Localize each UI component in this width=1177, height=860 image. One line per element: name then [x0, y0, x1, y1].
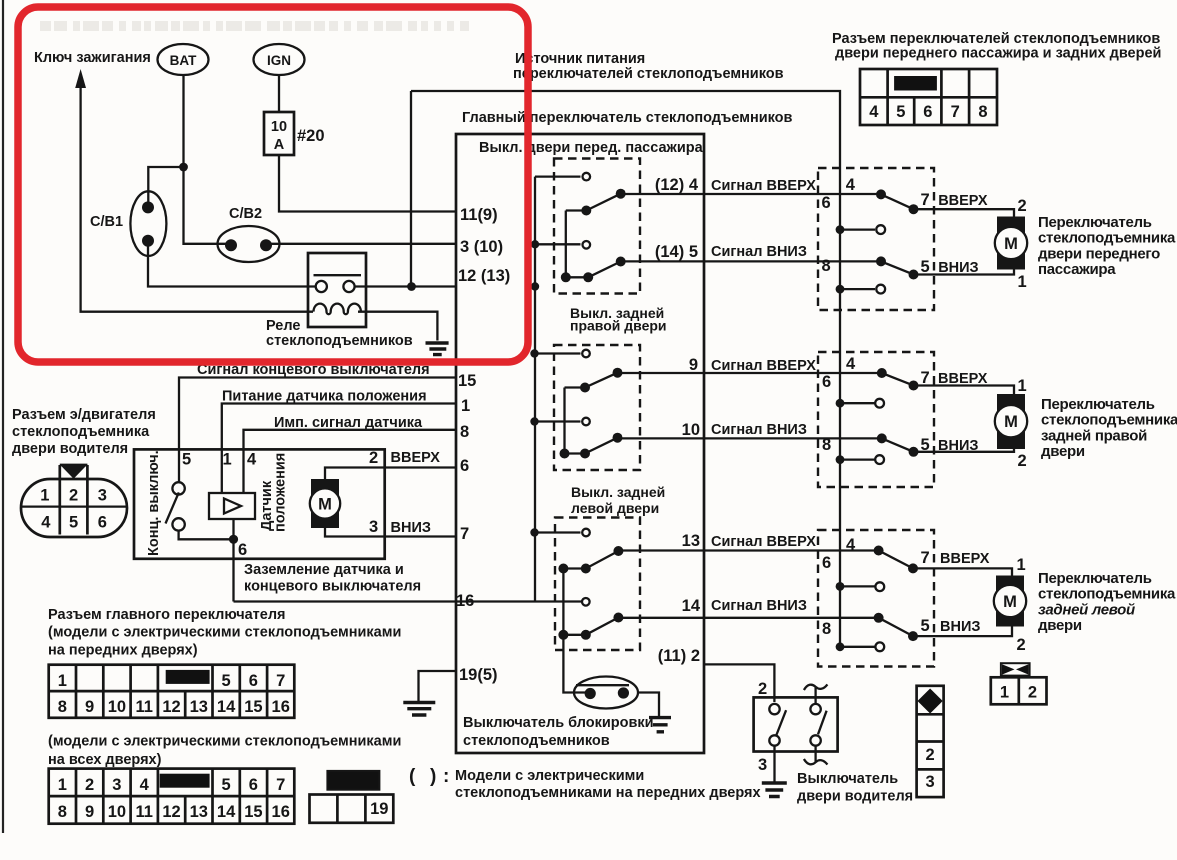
svg-text:1: 1 [40, 487, 49, 505]
svg-text:положения: положения [273, 453, 289, 532]
position sensor box [209, 493, 255, 519]
svg-text:C/B2: C/B2 [229, 206, 262, 222]
key fill [894, 76, 937, 91]
svg-text:3: 3 [112, 776, 121, 794]
svg-text:7: 7 [951, 103, 960, 121]
connector 19: key fill [327, 771, 379, 790]
svg-text:(: ( [409, 766, 416, 787]
svg-text:7: 7 [921, 549, 930, 567]
svg-text:4: 4 [140, 776, 150, 794]
svg-text:8: 8 [822, 436, 831, 454]
wire: lock out pin (11)2 to driver door switch [704, 664, 774, 702]
svg-text:11: 11 [135, 803, 152, 821]
wire: limit switch signal (pin 15) [179, 378, 456, 483]
connector 19 cells [310, 795, 394, 823]
switch S2 arm [566, 262, 621, 278]
feed bus 2 segment box1 [565, 211, 567, 278]
svg-text:M: M [1004, 235, 1018, 253]
svg-text:13: 13 [190, 803, 208, 821]
svg-text:M: M [1004, 413, 1018, 431]
relay contact circles [316, 281, 327, 292]
node IGN [254, 44, 305, 75]
wire: BAT down to C/B2 [148, 75, 228, 244]
dashed box: rear right door switch [818, 352, 934, 487]
relay coil [314, 304, 361, 315]
svg-text:стеклоподъемника: стеклоподъемника [12, 424, 150, 440]
svg-text:7: 7 [276, 672, 285, 690]
svg-text:3: 3 [369, 518, 378, 536]
svg-text:8: 8 [822, 620, 831, 638]
svg-text:4: 4 [41, 514, 51, 532]
svg-text:Питание датчика положения: Питание датчика положения [222, 389, 427, 405]
svg-text:1: 1 [461, 397, 470, 415]
wire: sensor pulse signal (pin 8) [244, 430, 457, 493]
connector: switch connector grid [860, 69, 997, 125]
wire: pin 19(5) to ground [419, 671, 457, 701]
driver motor [311, 479, 339, 528]
svg-text:19: 19 [370, 800, 388, 818]
limit switch arm [166, 492, 179, 523]
svg-text:Сигнал ВВЕРХ: Сигнал ВВЕРХ [711, 358, 816, 374]
dashed box: rear left switch [555, 518, 640, 651]
svg-text:A: A [274, 137, 285, 153]
svg-text:#20: #20 [297, 127, 325, 145]
svg-text:8: 8 [58, 698, 67, 716]
driver door switch left arm [776, 710, 786, 735]
ground: lock switch [649, 718, 671, 732]
svg-text:(11) 2: (11) 2 [658, 647, 700, 665]
connector numbers [869, 103, 987, 121]
svg-text:задней левой: задней левой [1038, 601, 1135, 618]
svg-text:задней правой: задней правой [1041, 427, 1147, 444]
svg-text:2: 2 [1028, 684, 1037, 702]
R2 switch DOWN arm [882, 438, 1014, 451]
svg-text:): ) [430, 766, 436, 787]
driver door switch right contacts [810, 704, 820, 714]
svg-text:двери водителя: двери водителя [797, 789, 913, 805]
R3 switch DOWN arm [879, 618, 1012, 636]
svg-text:4: 4 [846, 355, 856, 373]
R1 rest contact 1 [840, 228, 875, 230]
svg-text:(модели с электрическими стекл: (модели с электрическими стеклоподъемник… [48, 734, 401, 750]
driver door switch right arm [818, 711, 827, 735]
svg-text:1: 1 [1018, 273, 1027, 291]
svg-text:стеклоподъемника: стеклоподъемника [1041, 412, 1177, 429]
svg-text:Выключатель: Выключатель [797, 771, 898, 787]
svg-text:M: M [1003, 593, 1017, 611]
svg-text:12: 12 [162, 698, 180, 716]
wire: UP to pin 6 [385, 466, 456, 468]
svg-text:на всех дверях): на всех дверях) [48, 752, 162, 768]
svg-text:Сигнал ВНИЗ: Сигнал ВНИЗ [711, 422, 807, 438]
connector row divider [21, 505, 127, 507]
svg-text:5: 5 [182, 451, 191, 469]
motor: rear left [996, 576, 1024, 627]
ghost bleed-through text [40, 21, 469, 31]
svg-text:8: 8 [822, 257, 831, 275]
red highlight box [18, 7, 528, 362]
svg-text:7: 7 [921, 191, 930, 209]
svg-text:15: 15 [244, 803, 262, 821]
svg-text:Разъем главного переключателя: Разъем главного переключателя [48, 607, 286, 623]
svg-text:6: 6 [923, 103, 932, 121]
junction: source power on pin 12(13) wire [407, 282, 416, 291]
wire: signal DOWN front passenger [621, 260, 881, 262]
svg-text:7: 7 [276, 776, 285, 794]
svg-text:Переключатель: Переключатель [1041, 396, 1155, 413]
svg-text:стеклоподъемников: стеклоподъемников [266, 333, 413, 349]
feed bus 2 segment box2 [563, 388, 565, 454]
svg-text:12 (13): 12 (13) [458, 267, 510, 285]
svg-text:5: 5 [921, 258, 930, 276]
wire: source power top [411, 91, 840, 647]
svg-text:10: 10 [108, 803, 126, 821]
lock switch ellipse [574, 677, 638, 709]
svg-text:4: 4 [846, 176, 856, 194]
svg-text:9: 9 [689, 356, 698, 374]
svg-text:Выкл. задней: Выкл. задней [571, 484, 665, 500]
svg-text:двери: двери [1038, 617, 1082, 634]
node BAT [158, 44, 209, 75]
svg-text:1: 1 [1017, 556, 1026, 574]
svg-text:Имп. сигнал датчика: Имп. сигнал датчика [274, 415, 423, 431]
svg-text:16: 16 [272, 803, 290, 821]
svg-text:Разъем э/двигателя: Разъем э/двигателя [12, 407, 156, 423]
switch S3 arm [565, 373, 618, 388]
svg-text:8: 8 [460, 423, 469, 441]
bowtie key [1001, 663, 1030, 675]
svg-text:5: 5 [896, 103, 905, 121]
switch S4 rest contact [535, 420, 581, 422]
svg-text:8: 8 [58, 803, 67, 821]
svg-text:Выключатель блокировки: Выключатель блокировки [463, 715, 654, 731]
svg-text:на передних дверях): на передних дверях) [48, 643, 198, 659]
svg-text:Выкл. двери перед. пассажира: Выкл. двери перед. пассажира [479, 140, 704, 156]
svg-text:Сигнал ВВЕРХ: Сигнал ВВЕРХ [711, 178, 816, 194]
wire: signal UP front passenger [621, 193, 881, 195]
svg-text:5: 5 [222, 776, 231, 794]
svg-text:Источник питания: Источник питания [515, 51, 645, 67]
junction dots bus1 [531, 240, 539, 248]
svg-text:2: 2 [926, 746, 935, 764]
junction: sensor ground [229, 535, 238, 544]
svg-text:Модели с электрическими: Модели с электрическими [455, 768, 644, 784]
driver door switch box [754, 697, 838, 751]
connector: diamond column [917, 686, 944, 797]
connector key triangle [60, 465, 88, 479]
switch S6 rest contact [582, 598, 590, 606]
svg-text:1: 1 [1018, 377, 1027, 395]
page edge border [2, 0, 4, 833]
svg-text:3: 3 [758, 756, 767, 774]
relay contact bar [314, 274, 362, 276]
svg-text:4: 4 [869, 103, 879, 121]
feed bus 1 inside main box [534, 177, 536, 602]
svg-text:Переключатель: Переключатель [1038, 570, 1152, 587]
wire: motor down [325, 528, 385, 537]
driver door motor unit box [134, 449, 385, 558]
relay window-lift: box [308, 253, 366, 327]
svg-text:Сигнал ВВЕРХ: Сигнал ВВЕРХ [711, 534, 816, 550]
driver door switch left contacts [769, 704, 779, 714]
svg-text:ВВЕРХ: ВВЕРХ [391, 450, 441, 466]
svg-text:2: 2 [758, 680, 767, 698]
svg-text:IGN: IGN [267, 53, 291, 68]
svg-text:13: 13 [682, 532, 700, 550]
svg-text::: : [443, 766, 449, 787]
svg-text:стеклоподъемниками на передних: стеклоподъемниками на передних дверях [455, 785, 761, 801]
fuse 10A #20 [278, 75, 280, 112]
junction: BAT branch [179, 163, 188, 172]
svg-text:двери водителя: двери водителя [12, 441, 128, 457]
svg-text:3 (10): 3 (10) [460, 238, 503, 256]
svg-text:7: 7 [921, 369, 930, 387]
svg-text:3: 3 [926, 773, 935, 791]
svg-text:6: 6 [822, 373, 831, 391]
svg-text:12: 12 [162, 803, 180, 821]
svg-text:10: 10 [271, 119, 287, 135]
svg-text:11(9): 11(9) [460, 206, 498, 224]
svg-text:5: 5 [69, 514, 78, 532]
svg-text:2: 2 [1018, 452, 1027, 470]
wire: C/B2 to main switch pin 3(10) [269, 243, 456, 245]
svg-text:14: 14 [217, 803, 236, 821]
svg-text:1: 1 [58, 672, 67, 690]
R3 rest contact 2 [840, 646, 875, 648]
switch S5 arm [563, 551, 618, 569]
svg-text:15: 15 [244, 698, 262, 716]
dashed box: rear right switch [554, 345, 640, 470]
switch S1 rest contact [535, 175, 581, 177]
svg-text:1: 1 [1000, 684, 1009, 702]
switch S5 rest contact [535, 531, 581, 533]
svg-text:13: 13 [190, 698, 208, 716]
connector center channel [60, 465, 88, 535]
svg-text:концевого выключателя: концевого выключателя [244, 579, 421, 595]
svg-text:M: M [318, 496, 332, 514]
motor: rear right [997, 394, 1025, 449]
svg-text:левой двери: левой двери [571, 500, 659, 516]
connector grid 2 (all doors models) [49, 769, 295, 824]
main window switch box [456, 134, 704, 753]
connector: driver door motor oval [21, 479, 127, 537]
svg-text:14: 14 [682, 597, 701, 615]
R1 rest contact 2 [840, 288, 875, 290]
dashed box: rear left door switch [818, 530, 934, 667]
wire: driver door switch to ground [773, 746, 775, 782]
svg-text:11: 11 [135, 698, 152, 716]
svg-text:двери: двери [1041, 443, 1085, 460]
wire: signal UP rear right [618, 372, 882, 374]
switch S3 rest contact [535, 352, 581, 354]
wire: signal UP rear left [618, 549, 878, 551]
svg-text:4: 4 [846, 536, 856, 554]
wire: limit switch bottom to junction [179, 531, 234, 540]
switch S2 rest contact [535, 243, 581, 245]
svg-text:Сигнал ВНИЗ: Сигнал ВНИЗ [711, 244, 807, 260]
R1 switch UP arm [881, 194, 1014, 217]
svg-text:стеклоподъемника: стеклоподъемника [1038, 230, 1176, 247]
ground: driver door switch [762, 783, 787, 797]
svg-text:9: 9 [85, 698, 94, 716]
wire: relay coil to ground [358, 312, 437, 341]
svg-text:1: 1 [223, 451, 232, 469]
wire: C/B1 bottom to relay contact and pin 12(13) [148, 243, 456, 287]
svg-text:2: 2 [85, 776, 94, 794]
svg-text:(12) 4: (12) 4 [655, 176, 699, 194]
wire: sensor bottom to pin 6 junction [232, 519, 234, 602]
svg-text:5: 5 [222, 672, 231, 690]
svg-text:Реле: Реле [266, 318, 300, 334]
svg-text:10: 10 [682, 421, 700, 439]
wire: sensor ground (pin 16) through box to S6 [234, 600, 582, 602]
svg-text:стеклоподъемников: стеклоподъемников [463, 733, 610, 749]
svg-text:правой двери: правой двери [570, 318, 667, 334]
svg-text:14: 14 [217, 698, 236, 716]
svg-text:двери переднего: двери переднего [1038, 245, 1160, 262]
wire: lock switch to ground [638, 693, 659, 717]
svg-text:2: 2 [1018, 197, 1027, 215]
svg-text:6: 6 [460, 457, 469, 475]
svg-text:ВНИЗ: ВНИЗ [940, 619, 980, 635]
svg-text:пассажира: пассажира [1038, 261, 1116, 278]
svg-text:6: 6 [822, 194, 831, 212]
limit switch contacts [172, 482, 184, 494]
svg-text:4: 4 [247, 451, 257, 469]
svg-text:15: 15 [458, 372, 476, 390]
wire: signal DOWN rear right [618, 437, 882, 439]
svg-text:6: 6 [822, 554, 831, 572]
svg-text:7: 7 [460, 525, 469, 543]
connector: 1-2 cells [991, 677, 1047, 704]
junction dots on right feed bus [836, 225, 845, 234]
R3 switch UP arm [879, 551, 1012, 577]
wire: ignition key arrow to relay coil [81, 86, 313, 312]
svg-text:2: 2 [69, 487, 78, 505]
wire: DOWN to pin 7 [385, 535, 456, 537]
connector grid 1 (front doors models) [49, 665, 295, 718]
ground: relay [426, 343, 449, 355]
svg-text:Ключ зажигания: Ключ зажигания [34, 50, 151, 66]
svg-text:C/B1: C/B1 [90, 214, 123, 230]
svg-text:Сигнал ВНИЗ: Сигнал ВНИЗ [711, 598, 807, 614]
wire: fuse to main switch pin 11(9) [279, 155, 456, 212]
svg-text:2: 2 [369, 449, 378, 467]
svg-text:2: 2 [1017, 636, 1026, 654]
svg-text:10: 10 [108, 698, 126, 716]
grid1 numbers [58, 672, 290, 716]
svg-text:9: 9 [85, 803, 94, 821]
grid2 numbers [58, 776, 290, 821]
svg-text:6: 6 [238, 541, 247, 559]
R3 rest contact 1 [840, 585, 875, 587]
R2 switch UP arm [882, 373, 1014, 395]
grid2 key fill [160, 774, 210, 788]
dashed box: front passenger switch [554, 159, 640, 294]
svg-text:6: 6 [98, 514, 107, 532]
svg-text:3: 3 [98, 487, 107, 505]
wire: signal DOWN rear left [618, 617, 878, 619]
svg-text:BAT: BAT [170, 53, 197, 68]
svg-text:(модели с электрическими стекл: (модели с электрическими стеклоподъемник… [48, 625, 401, 641]
plunger curl bottom [804, 746, 828, 765]
switch S4 arm [565, 438, 618, 454]
ground: main switch [403, 703, 435, 716]
R2 rest contact 2 [840, 458, 875, 460]
R2 rest contact 1 [840, 402, 875, 404]
feed bus 2 segment box3 down to lock switch [563, 569, 586, 693]
switch S1 arm [566, 194, 621, 211]
plunger curl top [804, 684, 828, 704]
svg-text:ВВЕРХ: ВВЕРХ [938, 193, 988, 209]
wire: motor up [325, 468, 385, 480]
svg-text:6: 6 [249, 776, 258, 794]
svg-text:6: 6 [249, 672, 258, 690]
svg-text:8: 8 [978, 103, 987, 121]
svg-text:двери переднего пассажира и за: двери переднего пассажира и задних двере… [835, 46, 1161, 62]
svg-text:5: 5 [921, 617, 930, 635]
dashed box: front passenger door switch [818, 168, 934, 310]
svg-text:(14) 5: (14) 5 [655, 243, 698, 261]
svg-text:Переключатель: Переключатель [1038, 214, 1152, 231]
svg-text:стеклоподъемника: стеклоподъемника [1038, 586, 1176, 603]
wire: position sensor supply (pin 1) [222, 404, 456, 494]
switch S6 arm [563, 618, 618, 635]
grid1 key fill [166, 670, 210, 684]
svg-text:16: 16 [272, 698, 290, 716]
svg-text:переключателей стеклоподъемник: переключателей стеклоподъемников [513, 66, 784, 82]
svg-text:1: 1 [58, 776, 67, 794]
svg-text:Главный переключатель стеклопо: Главный переключатель стеклоподъемников [462, 110, 793, 126]
svg-text:Конц. выключ.: Конц. выключ. [146, 450, 162, 556]
motor: front passenger [997, 217, 1025, 270]
sensor triangle [224, 499, 241, 514]
svg-text:Заземление датчика и: Заземление датчика и [244, 562, 404, 578]
svg-text:ВНИЗ: ВНИЗ [391, 520, 431, 536]
R1 switch DOWN arm [881, 261, 1014, 274]
svg-text:19(5): 19(5) [459, 666, 498, 684]
svg-text:ВВЕРХ: ВВЕРХ [940, 551, 990, 567]
diamond key [918, 689, 943, 714]
